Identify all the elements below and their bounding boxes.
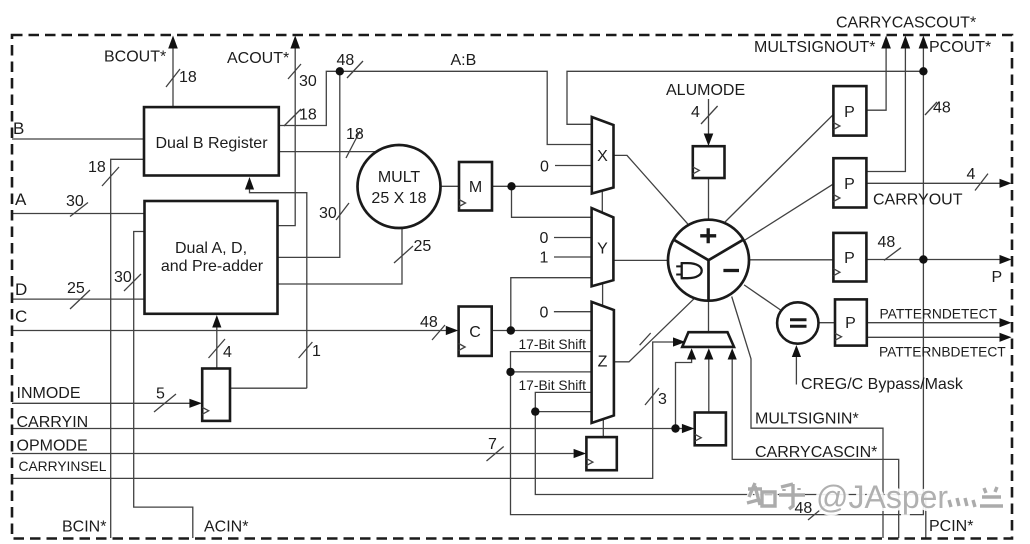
slash A:B 48 <box>347 61 363 78</box>
arrow BCOUT up <box>168 36 178 49</box>
svg-text:ACIN*: ACIN* <box>204 519 248 536</box>
OPMODE register box <box>586 437 616 470</box>
arrow P right <box>1000 255 1012 264</box>
wire Z PCIN input <box>535 411 591 413</box>
svg-text:OPMODE: OPMODE <box>17 438 88 455</box>
svg-text:PCIN*: PCIN* <box>929 518 973 535</box>
svg-text:MULTSIGNIN*: MULTSIGNIN* <box>755 411 859 428</box>
slash B MULT 18 <box>346 131 360 158</box>
arrow CARRYOUT right <box>1000 179 1012 188</box>
svg-text:ACOUT*: ACOUT* <box>227 50 289 67</box>
wire M register output to X mux <box>492 185 592 187</box>
svg-text:P: P <box>992 269 1003 286</box>
slash BCOUT 18 <box>166 69 180 87</box>
wire CARRYIN input <box>12 428 676 430</box>
wire MULTSIGNIN from bottom border to ALU <box>732 297 883 539</box>
svg-text:18: 18 <box>88 159 106 176</box>
svg-text:CARRYCASCOUT*: CARRYCASCOUT* <box>836 15 976 32</box>
equals sign <box>790 320 807 326</box>
svg-text:A: A <box>15 190 27 209</box>
slash P 48 <box>884 248 901 261</box>
wire INMODE reg top output to Dual A,D bottom <box>216 324 218 369</box>
slash P feedback 48 <box>808 505 826 520</box>
wire ALU to P3 register <box>749 259 833 261</box>
wire BCOUT: Dual B Register top to border arrow <box>172 46 174 107</box>
slash INMODE 5 <box>154 394 176 412</box>
wire Dual B out to 48 junction <box>279 71 340 125</box>
svg-text:5: 5 <box>156 386 165 403</box>
arrow into Dual A,D bottom <box>212 315 221 328</box>
node M output junction <box>507 182 515 190</box>
wire A input <box>12 213 144 215</box>
wire Z 17-bit shift PCIN input <box>535 392 591 411</box>
wire ALU to P2 register <box>745 184 833 240</box>
clock pin ALUMODE reg <box>693 167 700 174</box>
clock pin P3 <box>833 269 840 276</box>
wire Y mux 0 input <box>554 237 592 239</box>
slash B upper 18 <box>284 109 301 126</box>
wire CARRYIN into register <box>676 428 686 430</box>
wire Z mux output to ALU <box>614 298 695 362</box>
wire B 18-bit to MULT <box>279 151 377 153</box>
slash D 25 <box>70 290 90 309</box>
svg-text:A:B: A:B <box>451 52 477 69</box>
arrow PATTERNBDETECT right <box>1000 333 1012 342</box>
svg-text:INMODE: INMODE <box>17 385 81 402</box>
slash INMODE right 1 <box>299 342 313 358</box>
arrow carry mux in3 <box>728 348 737 359</box>
slash C 48 <box>432 325 445 340</box>
X mux <box>592 117 614 194</box>
ALU plus sign <box>700 228 716 243</box>
wire X mux 0 input <box>555 165 592 167</box>
svg-text:0: 0 <box>540 159 549 176</box>
svg-text:BCOUT*: BCOUT* <box>104 49 166 66</box>
clock pin P4 <box>835 333 842 340</box>
svg-text:@JAsper: @JAsper <box>816 479 948 515</box>
wire A 30-bit up to 48 junction <box>278 71 340 257</box>
node P output junction <box>919 255 927 263</box>
arrow into C register <box>446 326 459 335</box>
Z mux <box>592 302 614 423</box>
wire OPMODE input <box>12 453 574 455</box>
clock pin M <box>459 200 466 207</box>
svg-text:4: 4 <box>967 166 976 183</box>
svg-text:3: 3 <box>658 391 667 408</box>
wire ACOUT: Dual A,D out up to border arrow <box>278 46 296 226</box>
svg-text:PCOUT*: PCOUT* <box>929 39 991 56</box>
arrow carry mux in1 <box>687 348 696 359</box>
wire C input <box>12 330 447 332</box>
wire ALUMODE register to ALU <box>708 178 710 220</box>
slash A 30 <box>70 203 88 217</box>
svg-text:48: 48 <box>933 100 951 117</box>
wire ALU to pattern comparator <box>744 285 781 311</box>
svg-text:P: P <box>844 250 855 267</box>
wire carry mux input left from CARRYIN bypass <box>691 356 693 359</box>
wire comparator to P4 register <box>819 322 836 324</box>
svg-text:CARRYINSEL: CARRYINSEL <box>19 459 107 474</box>
wire X mux output to ALU <box>614 155 689 224</box>
svg-text:4: 4 <box>223 344 232 361</box>
wire X mux select link <box>601 191 603 213</box>
svg-text:X: X <box>597 148 608 165</box>
svg-text:C: C <box>15 307 27 326</box>
P register 3 box <box>833 233 866 282</box>
wire PATTERNBDETECT to right border <box>867 336 1002 338</box>
svg-text:0: 0 <box>540 230 549 247</box>
svg-text:48: 48 <box>337 52 355 69</box>
svg-text:MULTSIGNOUT*: MULTSIGNOUT* <box>754 39 875 56</box>
svg-text:C: C <box>469 324 481 341</box>
wire Y mux select link <box>602 283 604 306</box>
carry select mux <box>682 332 734 347</box>
svg-text:1: 1 <box>540 250 549 267</box>
svg-text:P: P <box>845 315 856 332</box>
slash A vertical 30 <box>336 203 349 220</box>
slash ACOUT 30 <box>288 64 301 79</box>
clock pin P1 <box>833 123 840 130</box>
wire P feedback bottom riser <box>511 71 924 514</box>
INMODE register box <box>202 369 230 421</box>
slash CARRYOUT 4 <box>975 174 988 191</box>
svg-text:30: 30 <box>299 73 317 90</box>
svg-text:25: 25 <box>67 280 85 297</box>
svg-text:18: 18 <box>299 107 317 124</box>
svg-text:B: B <box>13 119 24 138</box>
svg-text:P: P <box>844 176 855 193</box>
slash OPMODE 7 <box>487 447 504 462</box>
svg-text:48: 48 <box>878 234 896 251</box>
arrow ACOUT up <box>290 36 300 49</box>
clock pin P2 <box>833 195 840 202</box>
wire M branch to Y mux <box>512 186 592 217</box>
ALU minus sign <box>723 269 739 272</box>
wire Z mux select link to OPMODE register <box>602 419 604 437</box>
arrow into ALUMODE register <box>704 134 714 147</box>
wire CARRYINSEL input and up to carry mux select <box>12 342 676 478</box>
slash ALUMODE 4 <box>701 106 718 124</box>
svg-text:17-Bit Shift: 17-Bit Shift <box>519 378 587 393</box>
arrow into Dual B bottom <box>245 177 254 190</box>
wire P2 output CARRYOUT to right border <box>866 182 1002 184</box>
P register 1 box <box>833 86 866 136</box>
slash Z output <box>640 333 651 345</box>
M register box <box>459 162 492 211</box>
svg-text:CREG/C Bypass/Mask: CREG/C Bypass/Mask <box>801 376 964 393</box>
svg-text:Dual A, D,: Dual A, D, <box>175 240 247 257</box>
svg-text:CARRYCASCIN*: CARRYCASCIN* <box>755 444 877 461</box>
slash BCIN 18 <box>102 167 119 186</box>
wire ACIN: bottom border up into Dual A,D <box>134 232 193 539</box>
node PCIN junction <box>531 407 539 415</box>
svg-text:48: 48 <box>795 500 813 517</box>
clock pin INMODE reg <box>202 407 209 414</box>
svg-text:18: 18 <box>179 69 197 86</box>
clock pin CARRYIN reg <box>695 434 702 441</box>
arrow CARRYCASCOUT up <box>881 36 891 49</box>
ALU divider <box>674 240 744 301</box>
svg-text:P: P <box>844 104 855 121</box>
wire CARRYIN bypass up to carry mux <box>676 356 692 429</box>
svg-text:Dual B Register: Dual B Register <box>155 135 268 152</box>
node P feedback junction <box>506 368 514 376</box>
arrow into INMODE register <box>189 399 202 408</box>
ALU logic gate symbol <box>676 266 682 274</box>
CARRYIN register box <box>695 413 726 446</box>
wire MULT to M register <box>441 185 460 187</box>
C register box <box>459 307 492 356</box>
svg-text:PATTERNBDETECT: PATTERNBDETECT <box>879 345 1006 360</box>
svg-text:25 X 18: 25 X 18 <box>371 190 426 207</box>
wire A 25-bit to MULT bottom <box>278 228 403 284</box>
wire Z 17-bit shift P input <box>511 352 592 372</box>
wire C register output to Z mux <box>492 330 592 332</box>
wire D input <box>12 298 144 300</box>
svg-text:Y: Y <box>597 241 608 258</box>
svg-text:BCIN*: BCIN* <box>62 519 106 536</box>
svg-text:D: D <box>15 280 27 299</box>
Dual A, D, and Pre-adder box <box>145 201 278 314</box>
node C output junction <box>507 326 515 334</box>
arrow into comparator <box>792 345 801 357</box>
clock pin OPMODE reg <box>586 459 593 466</box>
slash INMODE up 4 <box>209 339 226 358</box>
svg-text:48: 48 <box>420 314 438 331</box>
wire CARRYCASCIN from bottom border to mux <box>732 356 899 538</box>
watermark <box>747 479 1003 515</box>
arrow PCOUT up <box>919 36 929 49</box>
wire carry register output to mux <box>708 356 710 413</box>
svg-text:0: 0 <box>540 305 549 322</box>
slash PCOUT 48 <box>925 102 937 115</box>
wire Y mux output to ALU <box>613 259 668 261</box>
node PCOUT junction <box>919 67 927 75</box>
P register 4 box <box>835 299 867 345</box>
slash CARRYINSEL 3 <box>645 388 659 405</box>
svg-text:17-Bit Shift: 17-Bit Shift <box>519 337 587 352</box>
slash ACIN 30 <box>124 274 141 291</box>
arrow MULTSIGNOUT up <box>901 36 911 49</box>
wire CREG/C Bypass/Mask arrow stem <box>795 356 797 385</box>
wire ALUMODE input <box>708 99 710 136</box>
wire Y mux 1 input <box>554 256 592 258</box>
node CARRYIN junction <box>671 424 679 432</box>
wire P feedback top to X mux <box>567 71 923 124</box>
ALUMODE register box <box>693 146 725 178</box>
wire INMODE reg right output <box>230 387 307 389</box>
svg-text:PATTERNDETECT: PATTERNDETECT <box>880 307 998 322</box>
wire ALU carry mux link <box>708 301 710 333</box>
Y mux <box>592 208 614 286</box>
wire INMODE input <box>12 402 190 404</box>
arrow into OPMODE register <box>574 449 587 458</box>
wire P1 output to CARRYCASCOUT border arrow <box>866 46 886 110</box>
wire PCIN from bottom border <box>535 412 926 538</box>
arrow into CARRYIN register <box>682 424 695 433</box>
wire BCIN: bottom border up to Dual B Register <box>111 159 144 538</box>
svg-text:CARRYIN: CARRYIN <box>17 414 89 431</box>
wire C branch to Y mux <box>511 278 592 331</box>
svg-text:4: 4 <box>691 104 700 121</box>
svg-text:1: 1 <box>312 343 321 360</box>
slash MULT 25 <box>394 246 413 263</box>
arrow PATTERNDETECT right <box>1000 318 1012 327</box>
pattern detect comparator circle <box>777 302 818 343</box>
svg-text:30: 30 <box>66 193 84 210</box>
wire PATTERNDETECT to right border <box>867 322 1002 324</box>
wire PCOUT up to border arrow <box>922 46 924 71</box>
wire P3 output to right border P <box>866 259 1002 261</box>
Dual B Register box <box>144 107 279 175</box>
svg-text:18: 18 <box>346 126 364 143</box>
arrow carry mux select <box>673 337 686 346</box>
svg-text:and Pre-adder: and Pre-adder <box>161 258 264 275</box>
svg-text:CARRYOUT: CARRYOUT <box>873 192 963 209</box>
svg-text:30: 30 <box>114 269 132 286</box>
multiplier MULT 25x18 circle <box>358 145 441 228</box>
svg-text:Z: Z <box>598 354 608 371</box>
ALU circle <box>668 220 749 301</box>
wire Z P input <box>511 371 592 373</box>
wire B input <box>12 138 144 140</box>
arrow carry mux in2 <box>704 348 713 359</box>
wire ALU to P1 register <box>725 114 833 222</box>
svg-text:ALUMODE: ALUMODE <box>666 82 745 99</box>
clock pin C <box>459 344 466 351</box>
svg-text:25: 25 <box>414 238 432 255</box>
svg-text:30: 30 <box>319 205 337 222</box>
svg-text:7: 7 <box>488 436 497 453</box>
svg-text:M: M <box>469 179 482 196</box>
P register 2 box <box>833 158 866 207</box>
wire P2 output to MULTSIGNOUT border arrow <box>866 46 905 172</box>
wire INMODE register to Dual B bottom <box>250 186 307 388</box>
wire Z mux 0 input <box>554 311 592 313</box>
ARROWS <box>168 36 1011 459</box>
node A:B 48 junction <box>336 67 344 75</box>
svg-text:MULT: MULT <box>378 169 421 186</box>
wire A:B bus to X mux <box>340 71 592 144</box>
